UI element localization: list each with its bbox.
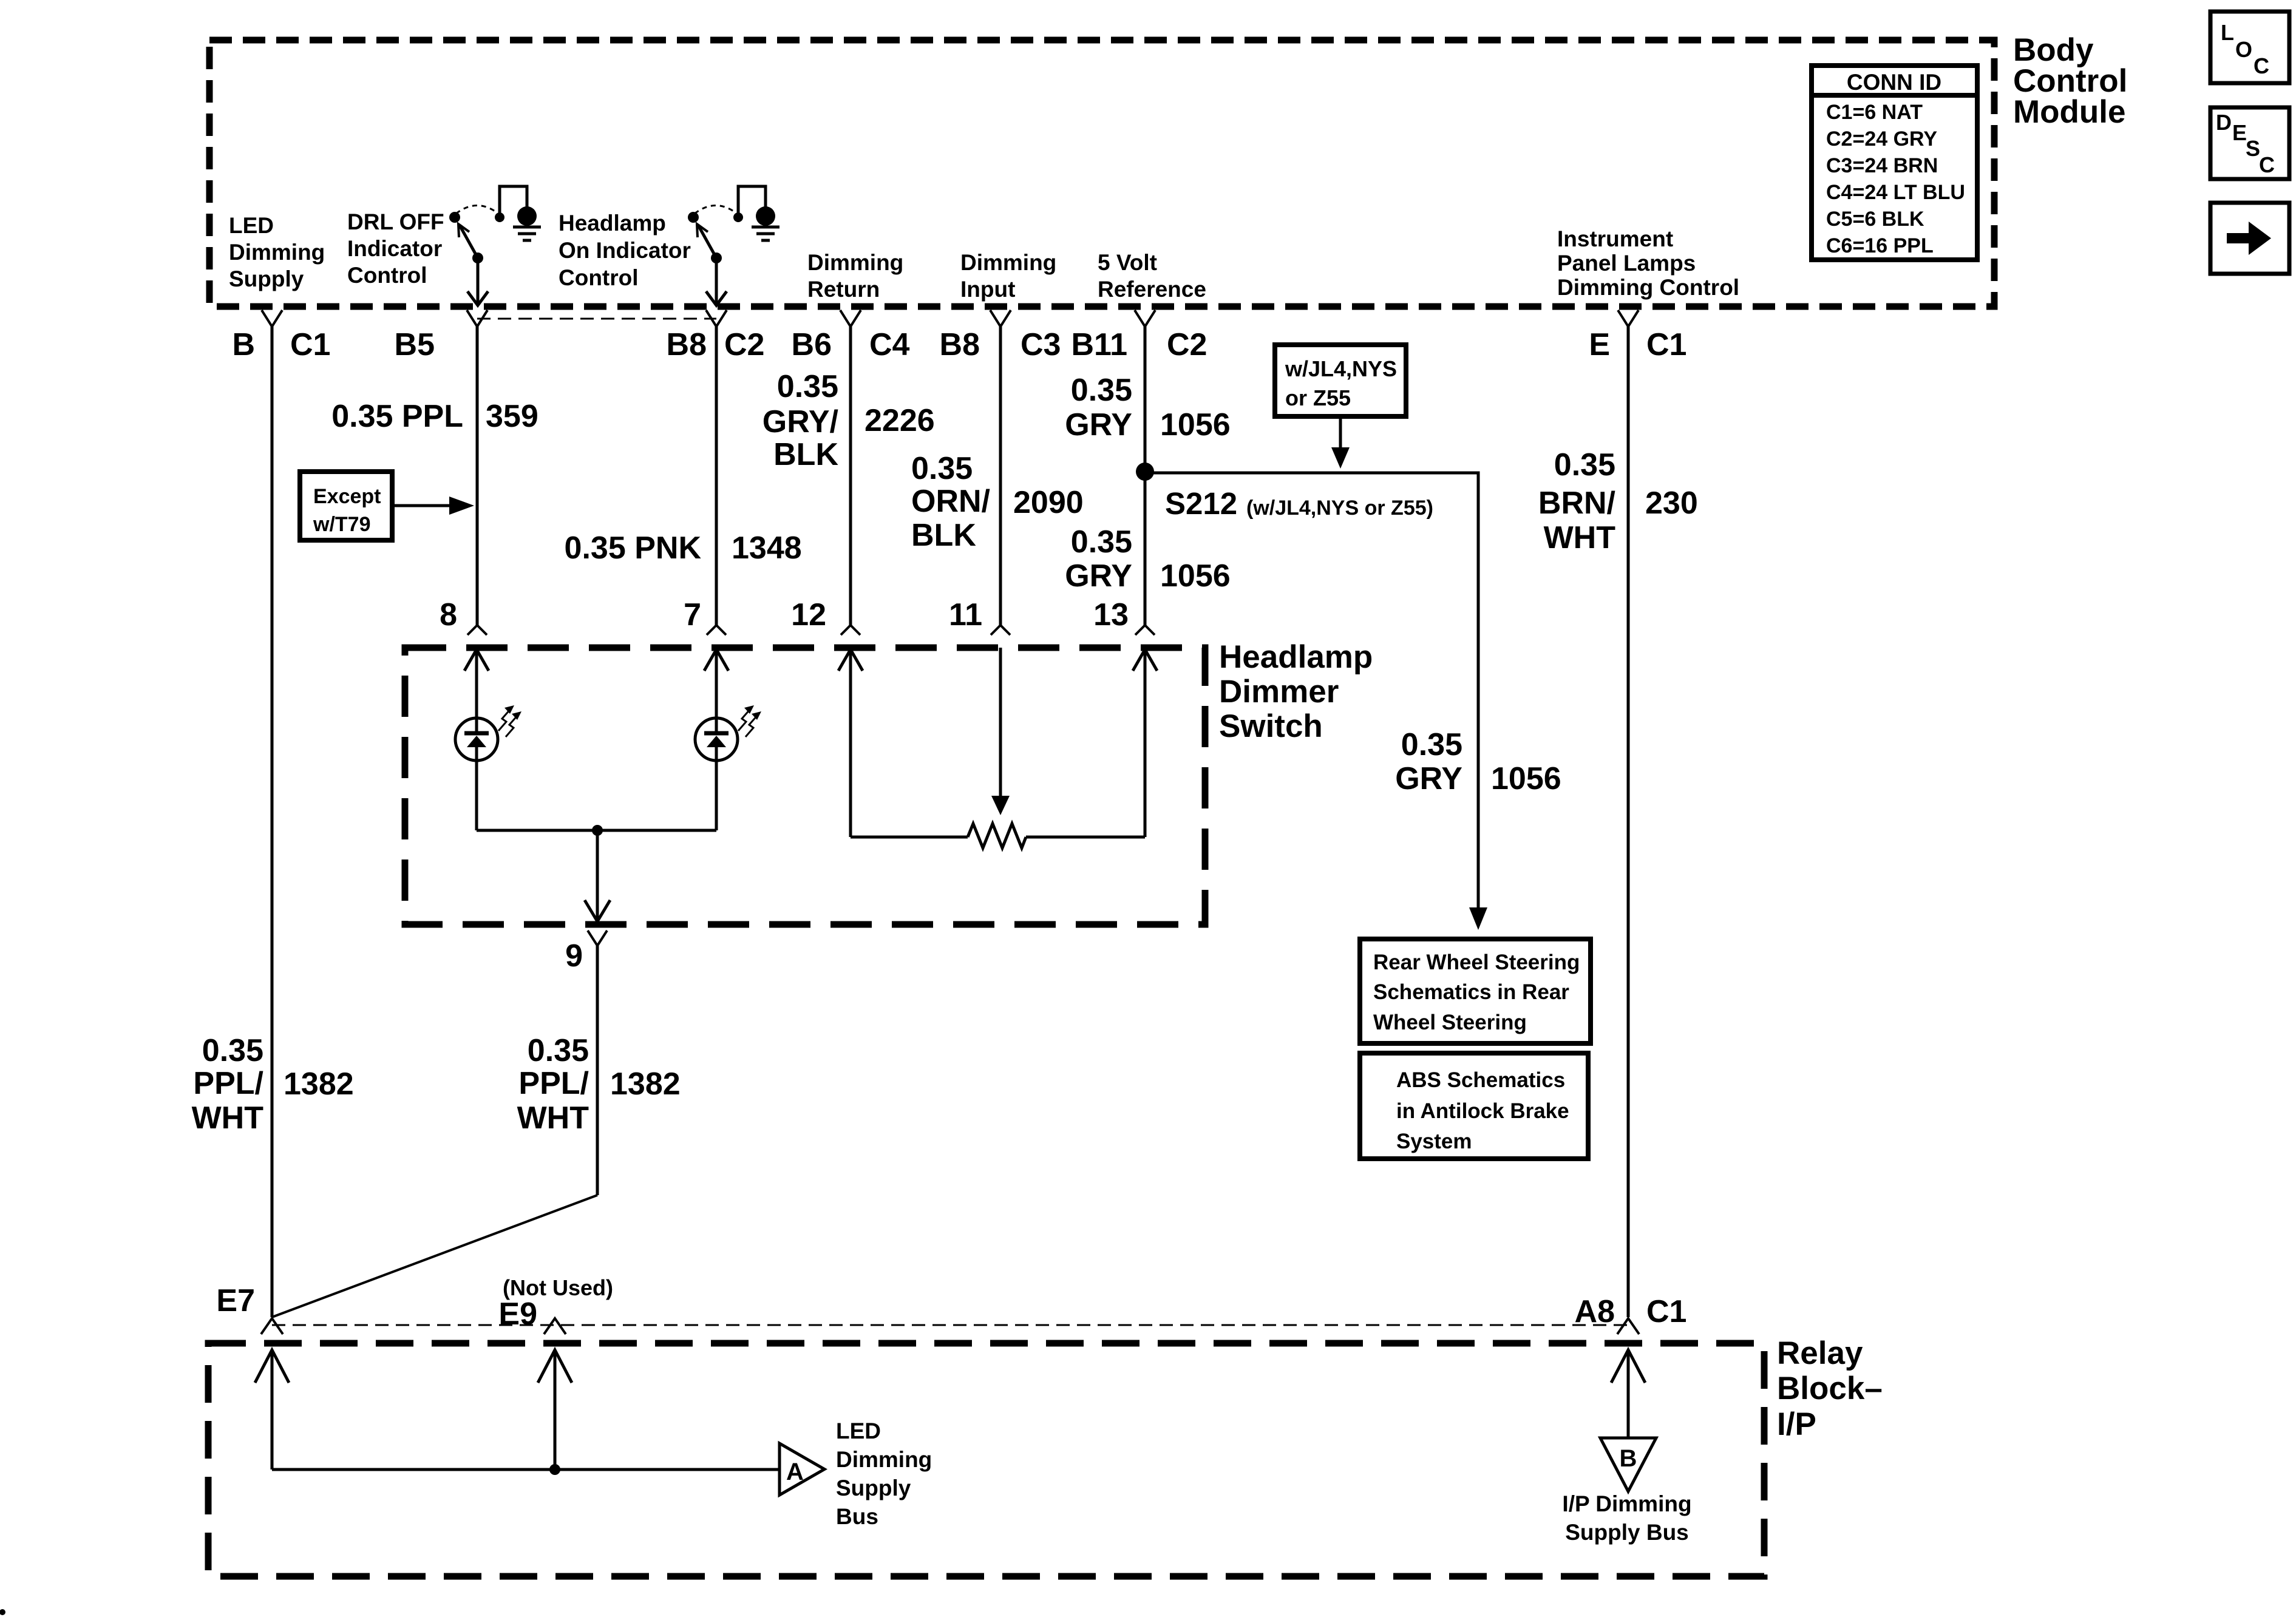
BCM pin function label: Dimming Input [960,250,1056,302]
svg-text:L: L [2221,20,2234,45]
svg-text:Control: Control [559,265,639,290]
dashed connector grouping line between B5 and B8 [477,318,716,320]
svg-text:0.35 PPL: 0.35 PPL [331,399,463,434]
svg-text:GRY: GRY [1065,558,1132,594]
scan artifact dot [0,1609,5,1615]
svg-text:A8: A8 [1575,1294,1615,1329]
svg-text:Dimming: Dimming [807,250,903,275]
svg-text:9: 9 [565,938,583,974]
ABS Schematics reference box [1360,1053,1588,1159]
svg-text:1056: 1056 [1160,558,1231,594]
svg-text:5 Volt: 5 Volt [1098,250,1157,275]
svg-text:or Z55: or Z55 [1285,385,1351,410]
svg-text:C6=16 PPL: C6=16 PPL [1826,234,1934,257]
svg-text:Dimmer: Dimmer [1219,674,1339,710]
svg-text:System: System [1396,1130,1472,1153]
svg-text:E9: E9 [498,1297,537,1332]
svg-text:2226: 2226 [864,403,935,438]
svg-text:1056: 1056 [1491,761,1561,796]
LED symbol (Headlamp On indicator lamp) [695,705,761,830]
dimmer internal wiper arm from pin 11 [991,648,1010,815]
svg-text:2090: 2090 [1013,485,1084,520]
svg-text:GRY/: GRY/ [763,404,838,439]
svg-text:230: 230 [1645,486,1698,521]
svg-text:C2: C2 [724,327,764,362]
svg-text:Dimming Control: Dimming Control [1557,275,1739,300]
wire B5 (0.35 PPL 359) from BCM to dimmer pin 8 [476,327,479,625]
relay internal wire at A8 to I/P dimming supply bus [1611,1350,1645,1438]
svg-text:1056: 1056 [1160,407,1231,442]
svg-text:GRY: GRY [1395,761,1462,796]
svg-text:B6: B6 [792,327,832,362]
svg-text:0.35: 0.35 [1071,524,1132,560]
BCM pin function label: Headlamp On Indicator Control [559,211,691,290]
svg-text:D: D [2216,110,2232,135]
Headlamp Dimmer Switch label [1219,639,1373,744]
bus connector triangle A [779,1443,824,1495]
wire label 0.35 GRY (upper) [1065,373,1132,442]
connector B8/C3 at BCM pin, x=1648 [940,310,1061,362]
svg-text:7: 7 [684,597,701,632]
BCM pin function label: Instrument Panel Lamps Dimming Control [1557,226,1739,300]
w/JL4,NYS or Z55 option box [1275,345,1406,416]
svg-text:Switch: Switch [1219,708,1323,744]
svg-text:Headlamp: Headlamp [559,211,666,236]
Except w/T79 option box [300,472,392,540]
svg-text:BLK: BLK [911,518,976,553]
svg-text:O: O [2235,37,2252,62]
connector B11/C2 at BCM pin, x=1886 [1071,310,1207,362]
svg-text:BRN/: BRN/ [1538,486,1615,521]
relay internal wire at E7 to LED dimming supply bus [255,1350,289,1470]
connector at dimmer switch pin 13 [1135,625,1155,635]
svg-text:A: A [786,1459,804,1485]
svg-text:E: E [1589,327,1610,362]
LED symbol (DRL OFF indicator lamp) [455,705,521,830]
svg-text:C1: C1 [1646,327,1686,362]
wire B8/C3 (0.35 ORN/BLK 2090) from BCM to dimmer pin 11 [999,327,1002,625]
connector B5 at BCM pin, x=786 [395,310,487,362]
svg-text:0.35: 0.35 [528,1033,589,1068]
Rear Wheel Steering reference box [1360,939,1591,1043]
connector A8 on relay block [1617,1318,1639,1334]
svg-text:B: B [1620,1445,1637,1472]
svg-text:C1=6 NAT: C1=6 NAT [1826,101,1923,124]
Headlamp Dimmer Switch dashed outline [405,648,1205,924]
svg-text:C2: C2 [1167,327,1207,362]
wire E/C1 (0.35 BRN/WHT 230) from BCM to relay A8 [1627,327,1630,1317]
svg-text:Headlamp: Headlamp [1219,639,1373,675]
svg-text:C: C [2259,152,2275,177]
svg-text:Bus: Bus [836,1504,878,1529]
wire label 0.35 ORN/BLK [911,451,990,553]
splice S212 junction dot [1136,463,1154,481]
svg-text:C1: C1 [290,327,330,362]
wire label 0.35 BRN/WHT [1538,447,1615,555]
connector B8/C2 at BCM pin, x=1180 [667,310,765,362]
svg-text:in Antilock Brake: in Antilock Brake [1396,1099,1569,1123]
connector E/C1 at BCM pin, x=2682 [1589,310,1686,362]
connector B/C1 at BCM pin, x=448 [232,310,330,362]
wire label 0.35 GRY (S212 branch) [1395,727,1462,796]
svg-text:0.35: 0.35 [1401,727,1462,762]
svg-text:1348: 1348 [732,531,802,566]
Relay Block I/P dashed outline [208,1343,1764,1576]
wire label 0.35 PPL/WHT (right) [517,1033,589,1136]
svg-text:C1: C1 [1646,1294,1686,1329]
thin dashed connector face line on relay block [272,1324,1628,1326]
svg-text:12: 12 [791,597,826,632]
svg-text:Return: Return [807,277,880,302]
svg-text:WHT: WHT [192,1100,264,1136]
svg-text:I/P Dimming: I/P Dimming [1562,1491,1691,1516]
svg-text:DRL OFF: DRL OFF [347,209,444,234]
dimmer internal wire from pin 7 with LED indicator [704,649,729,718]
connector at dimmer switch pin 11 [991,625,1010,635]
svg-text:E7: E7 [216,1283,255,1318]
wire joining the two LEDs [477,829,716,832]
connector at dimmer pin 9 [588,931,607,946]
wire from S212 to rear wheel steering (0.35 GRY 1056) [1145,473,1487,930]
svg-text:PPL/: PPL/ [518,1066,589,1101]
arrow from option box to S212 wire [1331,419,1350,469]
svg-text:B11: B11 [1071,327,1127,362]
svg-text:BLK: BLK [773,437,838,472]
svg-text:11: 11 [949,597,982,632]
svg-text:C: C [2254,53,2269,78]
svg-text:B8: B8 [667,327,707,362]
svg-text:Rear Wheel Steering: Rear Wheel Steering [1373,951,1580,974]
connector E9 on relay block [544,1318,566,1334]
svg-text:1382: 1382 [284,1066,354,1102]
svg-text:LED: LED [836,1419,881,1443]
svg-text:LED: LED [229,213,274,238]
Headlamp On indicator switch (to ground) [688,186,779,305]
svg-text:0.35: 0.35 [1554,447,1615,483]
label I/P Dimming Supply Bus [1562,1491,1691,1545]
wire from junction down to pin 9 [585,830,610,921]
Relay Block I/P label [1777,1335,1883,1442]
wire B11/C2 (0.35 GRY 1056) from BCM to dimmer pin 13 [1144,327,1147,625]
svg-text:C3=24 BRN: C3=24 BRN [1826,154,1938,177]
svg-text:1382: 1382 [610,1066,681,1102]
svg-text:C3: C3 [1021,327,1061,362]
svg-text:Control: Control [347,263,427,288]
svg-text:Supply: Supply [836,1476,911,1500]
svg-text:(w/JL4,NYS or Z55): (w/JL4,NYS or Z55) [1246,497,1433,520]
wire B8/C2 (0.35 PNK 1348) from BCM to dimmer pin 7 [715,327,718,625]
svg-text:Supply Bus: Supply Bus [1565,1520,1689,1545]
LOC reference box [2210,12,2289,83]
svg-text:8: 8 [440,597,457,632]
LED dimming supply bus wire [272,1468,779,1471]
Body Control Module dashed outline [209,40,1994,307]
dimmer internal wire from pin 8 with LED indicator [464,649,489,718]
wire label 0.35 PPL/WHT (left) [192,1033,264,1136]
svg-text:Dimming: Dimming [229,240,325,265]
svg-text:0.35: 0.35 [202,1033,263,1068]
CONN ID table [1812,66,1977,260]
svg-text:C4=24 LT BLU: C4=24 LT BLU [1826,181,1965,204]
svg-text:WHT: WHT [1544,520,1616,555]
svg-text:E: E [2232,120,2247,145]
svg-text:w/T79: w/T79 [313,513,370,536]
svg-text:0.35: 0.35 [1071,373,1132,408]
svg-text:B5: B5 [395,327,435,362]
wire B/C1 (0.35 PPL/WHT 1382) from BCM pin B to relay E7 [271,327,274,1317]
BCM pin function label: DRL OFF Indicator Control [347,209,444,288]
connector at dimmer switch pin 7 [707,625,726,635]
svg-text:Wheel Steering: Wheel Steering [1373,1011,1527,1034]
svg-text:C2=24 GRY: C2=24 GRY [1826,127,1937,151]
DRL OFF indicator switch (to ground) [449,186,541,305]
connector B6/C4 at BCM pin, x=1401 [792,310,910,362]
junction on supply bus [549,1464,560,1475]
connector E7 on relay block [261,1318,283,1334]
relay internal wire at E9 (not used) to bus [538,1350,572,1470]
svg-text:Dimming: Dimming [836,1447,932,1472]
svg-text:0.35: 0.35 [911,451,973,486]
svg-text:Module: Module [2013,94,2125,130]
svg-text:C4: C4 [869,327,910,362]
svg-text:Panel Lamps: Panel Lamps [1557,251,1696,276]
BCM pin function label: Dimming Return [807,250,903,302]
svg-text:359: 359 [486,399,538,434]
DESC reference box [2210,107,2289,179]
svg-text:ABS Schematics: ABS Schematics [1396,1068,1565,1092]
svg-text:WHT: WHT [517,1100,589,1136]
svg-text:Supply: Supply [229,266,304,291]
svg-text:0.35 PNK: 0.35 PNK [565,531,702,566]
wire B6/C4 (0.35 GRY/BLK 2226) from BCM to dimmer pin 12 [849,327,852,625]
dimmer internal wire from rheostat to pin 13 [1026,649,1157,837]
svg-text:Schematics in Rear: Schematics in Rear [1373,980,1569,1004]
wire label 0.35 GRY/BLK [763,369,839,472]
svg-text:Instrument: Instrument [1557,226,1673,251]
svg-text:Except: Except [313,485,381,508]
bus connector triangle B [1600,1438,1656,1491]
svg-text:C5=6 BLK: C5=6 BLK [1826,208,1924,231]
svg-text:B8: B8 [940,327,980,362]
connector at dimmer switch pin 8 [467,625,487,635]
forward arrow reference box [2210,203,2289,274]
svg-text:Indicator: Indicator [347,236,442,261]
svg-text:Reference: Reference [1098,277,1206,302]
wire from pin 9 to relay E7 [272,946,597,1317]
label LED Dimming Supply Bus [836,1419,932,1529]
svg-text:ORN/: ORN/ [911,484,990,519]
svg-text:On Indicator: On Indicator [559,238,691,263]
connector at dimmer switch pin 12 [841,625,860,635]
arrow from Except w/T79 box to wire 359 [395,497,474,515]
svg-text:13: 13 [1093,597,1129,632]
BCM pin function label: LED Dimming Supply [229,213,325,291]
svg-text:Relay: Relay [1777,1335,1863,1371]
svg-text:Dimming: Dimming [960,250,1056,275]
BCM pin function label: 5 Volt Reference [1098,250,1206,302]
svg-text:S212: S212 [1165,486,1237,521]
svg-text:Input: Input [960,277,1015,302]
dimmer internal wire from pin 12 to rheostat [838,649,968,837]
svg-text:S: S [2246,136,2260,161]
svg-text:I/P: I/P [1777,1406,1816,1442]
junction of LED returns [592,825,603,836]
wire label 0.35 GRY (lower) [1065,524,1132,594]
svg-text:w/JL4,NYS: w/JL4,NYS [1285,356,1397,381]
rheostat resistor element [968,824,1026,848]
svg-text:B: B [232,327,255,362]
svg-text:GRY: GRY [1065,407,1132,442]
svg-text:0.35: 0.35 [777,369,838,404]
svg-text:Block–: Block– [1777,1371,1883,1406]
Body Control Module label [2013,32,2127,130]
svg-text:CONN ID: CONN ID [1847,70,1941,95]
svg-text:PPL/: PPL/ [193,1066,263,1101]
